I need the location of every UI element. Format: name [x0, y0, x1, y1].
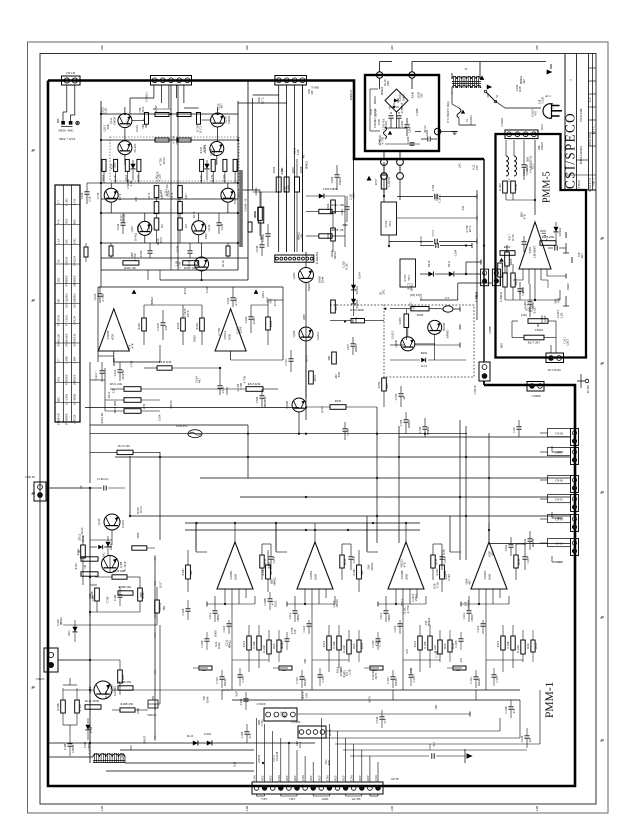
svg-text:CN10Z: CN10Z	[292, 720, 301, 724]
resistor bottom H2	[183, 261, 199, 265]
bus y543 right	[490, 543, 570, 545]
svg-text:REF: REF	[293, 775, 297, 781]
input diode top	[98, 545, 102, 549]
resistor R420	[505, 252, 510, 266]
cap C166	[528, 538, 533, 540]
svg-text:P-A: P-A	[56, 218, 60, 224]
title block grid	[564, 54, 566, 191]
cap C705b2	[399, 393, 404, 395]
input resistor R141	[85, 705, 101, 709]
diode D411	[449, 271, 454, 276]
svg-text:C203: C203	[408, 126, 412, 133]
svg-text:K39: K39	[337, 372, 341, 378]
svg-text:H4/20: H4/20	[223, 678, 227, 686]
svg-text:1H/20: 1H/20	[387, 614, 391, 622]
U100D under wire	[207, 603, 255, 605]
svg-text:7912: 7912	[407, 275, 411, 282]
svg-text:C202: C202	[400, 120, 404, 127]
svg-text:R710: R710	[183, 287, 187, 294]
svg-text:2SC: 2SC	[102, 552, 106, 557]
svg-text:C114: C114	[208, 612, 212, 619]
svg-text:22NF: 22NF	[139, 250, 143, 257]
svg-text:H9#22: H9#22	[380, 86, 384, 95]
U100B resistor cluster	[418, 636, 422, 650]
svg-text:C340: C340	[255, 245, 259, 252]
input terminal column	[154, 558, 156, 738]
center verticals	[170, 85, 172, 262]
svg-text:A990D: A990D	[446, 329, 450, 339]
wire input mesh	[89, 488, 91, 763]
wire Q302 up	[305, 252, 307, 268]
bottom channel extra wires	[195, 523, 197, 552]
U100A gnd tick	[286, 602, 288, 607]
svg-text:Q40B: Q40B	[394, 340, 398, 347]
svg-text:1N4148: 1N4148	[467, 600, 471, 610]
svg-text:2.2K: 2.2K	[129, 179, 133, 186]
svg-text:C104: C104	[357, 272, 361, 279]
connector CN5 strip	[275, 255, 314, 262]
U100B apex wire	[405, 523, 407, 542]
svg-text:CN408: CN408	[532, 394, 541, 398]
fan wires right h5	[343, 749, 527, 751]
resistor column L2	[114, 159, 118, 171]
svg-text:47000UF: 47000UF	[64, 275, 68, 287]
svg-text:55C: 55C	[64, 239, 68, 244]
svg-text:REF: REF	[285, 775, 289, 781]
svg-text:10K: 10K	[286, 184, 290, 190]
svg-text:49B23: 49B23	[407, 420, 411, 429]
transistor Q148	[102, 556, 119, 573]
connector CN6IN left	[34, 482, 46, 501]
svg-text:R12C: R12C	[532, 307, 536, 314]
svg-text:1H/20: 1H/20	[470, 614, 474, 622]
svg-text:A395: A395	[398, 317, 402, 324]
connector CN-I8	[571, 429, 579, 446]
svg-text:220/6s: 220/6s	[254, 187, 258, 196]
svg-text:R333: R333	[334, 303, 338, 310]
bottom channel extra parts	[199, 666, 212, 670]
svg-text:(2K): (2K)	[521, 313, 527, 317]
bottom strip pins	[254, 786, 259, 791]
svg-text:C11Z: C11Z	[476, 625, 480, 632]
svg-text:R33C: R33C	[195, 322, 199, 329]
U100D low cap	[220, 676, 225, 678]
svg-text:2SC: 2SC	[457, 163, 461, 168]
svg-text:B: B	[31, 687, 35, 689]
svg-text:49B23: 49B23	[354, 344, 358, 353]
center resistor C1	[154, 186, 159, 198]
svg-text:H9#22: H9#22	[150, 297, 154, 306]
arrow out	[466, 753, 472, 758]
svg-text:D600: D600	[401, 94, 405, 101]
svg-text:Q307: Q307	[130, 225, 134, 232]
main schematic thick border	[48, 81, 575, 787]
svg-text:CN201: CN201	[500, 117, 504, 126]
svg-text:CN-I6: CN-I6	[555, 478, 563, 482]
capacitor C326	[231, 297, 236, 299]
U100A apex wire	[314, 523, 316, 542]
U100A base pins	[304, 589, 306, 604]
svg-text:C11Z: C11Z	[393, 625, 397, 632]
svg-text:XBA/ +12V#: XBA/ +12V#	[59, 137, 76, 141]
wire top y287	[98, 286, 283, 288]
svg-text:R113 100: R113 100	[118, 444, 130, 448]
svg-text:L-3R3W: L-3R3W	[387, 177, 391, 188]
transistor Q319	[211, 113, 225, 127]
wire jog up	[465, 262, 467, 274]
wire inside power box	[396, 112, 398, 128]
transformer T1 secondary coil	[452, 86, 481, 88]
wire stub	[332, 213, 334, 228]
svg-text:C320: C320	[540, 96, 544, 103]
fan wires right h1	[297, 713, 471, 715]
marker triangle A	[132, 289, 137, 293]
svg-text:ZD12: ZD12	[529, 155, 533, 162]
cap C136	[525, 735, 530, 737]
center resistor C3	[178, 186, 183, 198]
transistor Q406	[401, 337, 415, 351]
cap C332	[118, 369, 123, 371]
svg-text:R350 120: R350 120	[124, 266, 136, 270]
svg-text:22NF6s: 22NF6s	[121, 369, 125, 379]
PMM-5 base pin wires	[513, 279, 523, 281]
svg-text:C114: C114	[288, 612, 292, 619]
capacitor C322	[98, 293, 103, 295]
svg-text:MED+ 4MC: MED+ 4MC	[58, 129, 73, 133]
svg-text:TO CN416: TO CN416	[547, 368, 561, 372]
resistor column L3	[125, 159, 129, 171]
top-left extra caps	[148, 250, 153, 252]
svg-text:Q315: Q315	[565, 338, 569, 345]
vert x377	[376, 407, 378, 543]
svg-text:R346: R346	[217, 642, 221, 649]
transformer T1 primary coil	[452, 77, 481, 79]
svg-text:GE'3E: GE'3E	[391, 777, 399, 781]
svg-text:H4P36: H4P36	[531, 538, 535, 547]
svg-text:100P: 100P	[136, 532, 140, 539]
svg-text:CN415: CN415	[36, 677, 45, 681]
svg-text:C708: C708	[239, 382, 243, 389]
vert x399	[398, 426, 400, 543]
svg-text:R172: R172	[419, 293, 423, 300]
svg-text:R11J: R11J	[434, 558, 438, 565]
svg-text:10K: 10K	[304, 692, 308, 698]
svg-text:8 10K: 8 10K	[252, 640, 256, 648]
zener ZD302	[351, 299, 356, 304]
svg-text:C11Z: C11Z	[222, 625, 226, 632]
wires col	[103, 171, 105, 183]
connector CN102	[298, 726, 326, 738]
svg-text:C20Z: C20Z	[406, 136, 410, 143]
wire zener	[353, 291, 355, 299]
svg-text:D600: D600	[193, 335, 197, 342]
svg-text:+: +	[389, 107, 391, 111]
capacitor C704	[434, 194, 436, 200]
svg-text:56K: 56K	[327, 759, 331, 765]
U100A under wire	[461, 603, 509, 605]
svg-text:1DA: 1DA	[56, 376, 60, 383]
thick gnd wire to border	[483, 381, 485, 385]
capacitor C204	[427, 137, 429, 142]
cap C364	[509, 544, 514, 546]
U100D input resistor	[186, 565, 191, 579]
svg-text:PMM-60A: PMM-60A	[64, 333, 68, 347]
svg-text:R21E: R21E	[514, 278, 518, 285]
resistor R360	[331, 200, 336, 213]
svg-text:CN416: CN416	[473, 385, 477, 394]
svg-text:R12C: R12C	[199, 174, 203, 181]
svg-text:100/25: 100/25	[419, 236, 423, 245]
svg-text:100/25: 100/25	[540, 141, 544, 150]
ground at power box output	[441, 131, 452, 133]
svg-text:R346: R346	[411, 91, 415, 98]
top-left feed stubs	[170, 262, 172, 270]
svg-text:47K: 47K	[557, 297, 561, 303]
svg-text:C360 J4P26: C360 J4P26	[323, 187, 338, 191]
svg-text:R175: R175	[147, 192, 151, 199]
cap C110 out	[431, 753, 433, 759]
mains plug AC1	[543, 104, 552, 119]
svg-text:H4/20: H4/20	[477, 678, 481, 686]
connector CN408	[527, 382, 544, 392]
svg-text:6B5: 6B5	[499, 343, 503, 349]
svg-text:1L13: 1L13	[421, 364, 428, 368]
svg-text:C11E: C11E	[412, 675, 416, 682]
svg-text:C367: C367	[346, 343, 350, 350]
svg-text:R116: R116	[267, 562, 271, 569]
transistor Q307	[138, 221, 152, 235]
svg-text:AL/TH: AL/TH	[352, 797, 362, 801]
svg-text:2SC: 2SC	[352, 193, 356, 198]
svg-text:C104: C104	[550, 102, 554, 109]
svg-text:1H/2B: 1H/2B	[71, 745, 75, 753]
svg-text:R12C: R12C	[345, 263, 349, 270]
svg-text:470: 470	[113, 163, 117, 168]
svg-text:REF: REF	[269, 775, 273, 781]
resistor R335 h	[330, 405, 346, 410]
PMM-5 capacitor C209	[522, 241, 527, 243]
regulator U703 box	[400, 259, 416, 287]
svg-text:CN-I3: CN-I3	[555, 541, 563, 545]
svg-text:10K: 10K	[269, 298, 273, 304]
svg-text:2.2K: 2.2K	[559, 312, 563, 319]
svg-text:R16B 47K: R16B 47K	[121, 702, 135, 706]
svg-text:R310 4K: R310 4K	[100, 412, 104, 424]
transistor Q305	[104, 188, 118, 202]
svg-text:R11C: R11C	[74, 563, 78, 570]
resistor RA3	[177, 113, 191, 117]
resistor RA1	[145, 113, 149, 125]
svg-text:R110: R110	[101, 174, 105, 181]
thermistor TH201 squiggle	[384, 127, 387, 139]
svg-text:C11E: C11E	[241, 675, 245, 682]
PMM-5 resistor R203	[540, 241, 556, 246]
svg-text:R217 2K7: R217 2K7	[528, 341, 541, 345]
emitter resistor ERL	[109, 246, 113, 256]
resistor column L4	[137, 159, 141, 171]
wire y192 h	[253, 191, 280, 193]
resistor R31C	[319, 209, 332, 213]
capacitor C360	[335, 174, 340, 176]
PMM-5 lower resistors	[503, 273, 507, 287]
svg-text:ZD1: ZD1	[67, 630, 71, 636]
svg-text:C11F: C11F	[443, 556, 447, 563]
top-left extra diodes	[130, 164, 135, 169]
small parts x333 y230	[331, 228, 336, 241]
svg-text:K2: K2	[160, 224, 164, 228]
svg-text:470: 470	[405, 649, 409, 654]
svg-text:4.7/50: 4.7/50	[101, 294, 105, 302]
svg-text:PMM-120: PMM-120	[56, 333, 60, 346]
svg-text:C11F: C11F	[352, 556, 356, 563]
svg-text:C106: C106	[240, 731, 244, 738]
thermal sensor PS401 oval	[443, 306, 453, 312]
PMM-5 resistor R207	[498, 263, 503, 277]
svg-text:R10C: R10C	[261, 568, 265, 575]
svg-text:C708: C708	[136, 225, 140, 232]
svg-text:K-M229A: K-M229A	[315, 251, 319, 264]
svg-text:10K: 10K	[434, 704, 438, 710]
PMM-5 wires lower	[512, 320, 518, 322]
wire transformer to switch	[451, 92, 453, 104]
svg-text:R307: R307	[291, 166, 295, 173]
vert feeders ch	[195, 523, 197, 550]
svg-text:ZD301: ZD301	[355, 285, 359, 294]
svg-text:4.7/50: 4.7/50	[380, 136, 384, 144]
wire Q chain	[305, 341, 307, 398]
svg-text:6B5: 6B5	[283, 713, 287, 719]
svg-text:C114: C114	[462, 612, 466, 619]
fan wires right h3	[310, 737, 520, 739]
resistor R40K	[332, 352, 337, 364]
svg-text:PWR AMP: PWR AMP	[579, 108, 583, 122]
svg-text:B: B	[600, 363, 604, 365]
svg-text:CN1-B: CN1-B	[66, 71, 75, 75]
svg-text:C11C: C11C	[295, 677, 299, 684]
svg-text:C30B: C30B	[415, 108, 419, 115]
svg-text:C1815: C1815	[391, 331, 395, 340]
svg-text:R11E: R11E	[322, 640, 326, 647]
svg-text:4/Z: 4/Z	[528, 738, 532, 742]
svg-text:C31B: C31B	[261, 234, 265, 241]
svg-text:2.2K: 2.2K	[104, 107, 108, 114]
svg-text:R305: R305	[272, 166, 276, 173]
wire y743	[48, 742, 315, 744]
svg-text:C30B: C30B	[64, 356, 68, 363]
svg-text:33P: 33P	[310, 90, 314, 95]
input cap c1	[118, 594, 123, 596]
svg-text:Q314: Q314	[207, 224, 211, 231]
svg-text:961B: 961B	[417, 313, 424, 317]
wire y368 down	[219, 368, 221, 381]
svg-text:REF: REF	[366, 775, 370, 781]
PMM-5 wire mid	[505, 299, 560, 301]
svg-text:C11B: C11B	[200, 641, 204, 648]
svg-text:C71C: C71C	[284, 358, 288, 365]
svg-text:PMM-120/60A: PMM-120/60A	[579, 145, 583, 164]
wire CN203 down	[383, 179, 385, 196]
svg-text:2.2K: 2.2K	[88, 195, 92, 202]
svg-text:2SC: 2SC	[382, 289, 386, 294]
U100A low cap	[474, 676, 479, 678]
resistor R707	[381, 175, 387, 189]
svg-text:ZD302: ZD302	[355, 299, 359, 308]
svg-text:H9#22: H9#22	[409, 283, 413, 292]
cap C146	[103, 486, 105, 491]
svg-text:4K7: 4K7	[467, 579, 471, 585]
U100D fb resistor	[260, 555, 264, 568]
U100A caps under	[293, 610, 298, 612]
svg-text:R10C: R10C	[352, 568, 356, 575]
svg-text:U100A: U100A	[309, 570, 313, 580]
bus y457	[115, 456, 570, 458]
svg-text:A970: A970	[186, 310, 190, 317]
wire y750 out	[120, 749, 254, 751]
resistor R332	[157, 366, 172, 370]
svg-text:R14B: R14B	[56, 703, 60, 710]
svg-text:C104: C104	[525, 168, 529, 175]
input resistors r2	[112, 575, 127, 579]
opamp U100A	[297, 542, 333, 589]
U100A fb resistor	[340, 555, 344, 568]
svg-text:T-3: T-3	[445, 296, 450, 300]
resistor R710h	[351, 319, 365, 323]
svg-text:H9#22: H9#22	[427, 617, 431, 626]
zener pair	[72, 627, 77, 632]
svg-text:1H/20: 1H/20	[296, 614, 300, 622]
top-left wire y270	[101, 269, 238, 271]
opamp U301B	[98, 309, 129, 351]
cap C367	[351, 343, 356, 345]
cap C104 right	[249, 316, 254, 318]
svg-text:CN6: CN6	[253, 775, 257, 781]
wire y660	[90, 659, 120, 661]
svg-text:K39: K39	[235, 691, 239, 697]
svg-text:TITLE: TITLE	[577, 180, 581, 188]
U100A input resistor	[440, 565, 445, 579]
regulator U702 box	[381, 202, 397, 235]
fb resistor F4	[200, 318, 205, 331]
svg-text:D600: D600	[566, 283, 570, 290]
svg-text:HF: HF	[56, 298, 60, 302]
bus y497	[240, 496, 570, 498]
zener ZD301	[351, 285, 356, 290]
mid resistors r8	[118, 670, 123, 683]
U100A gnd tick	[460, 602, 462, 607]
svg-text:CN6: CN6	[301, 775, 305, 781]
svg-text:10K: 10K	[269, 570, 273, 576]
capacitor C203	[405, 124, 410, 126]
cap C3x	[517, 426, 522, 428]
svg-text:REF: REF	[342, 775, 346, 781]
transistor Q311	[118, 114, 132, 128]
svg-text:10K: 10K	[303, 658, 307, 664]
svg-text:C11E: C11E	[495, 675, 499, 682]
svg-text:D867: D867	[204, 232, 208, 239]
svg-text:41R9F/LB: 41R9F/LB	[72, 334, 76, 347]
svg-text:C332: C332	[113, 369, 117, 376]
svg-text:D410: D410	[427, 260, 431, 267]
U100A low cap	[300, 676, 305, 678]
transistor Q317	[210, 142, 224, 156]
U100A resistor cluster	[501, 636, 505, 650]
svg-text:R706: R706	[377, 381, 381, 388]
resistor RA2	[155, 113, 169, 117]
svg-text:100/25: 100/25	[333, 251, 337, 260]
svg-text:5A(8A): 5A(8A)	[469, 115, 473, 124]
cap C100	[244, 698, 249, 700]
arrow into plug	[547, 69, 553, 74]
